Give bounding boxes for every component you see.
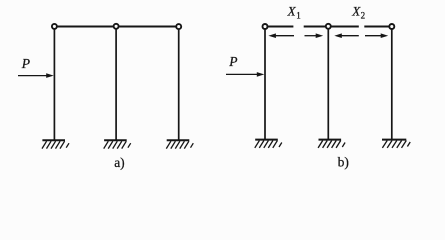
svg-text:X: X xyxy=(287,4,297,19)
svg-text:b): b) xyxy=(338,154,349,169)
svg-text:P: P xyxy=(228,54,237,69)
support b3 xyxy=(382,140,410,148)
beam b stub 1 (left of cut 1) xyxy=(265,26,293,28)
force X1 right arrow xyxy=(305,33,324,38)
hinge a3 xyxy=(176,24,181,29)
beam a (top girder) xyxy=(54,26,178,28)
svg-text:2: 2 xyxy=(361,11,366,21)
beam b stub 3 (left of cut 2) xyxy=(328,26,359,28)
support b1 xyxy=(255,140,282,148)
hinge a2 xyxy=(114,24,119,29)
hinge b3 xyxy=(389,24,394,29)
load P arrow b xyxy=(226,72,264,77)
column b1 xyxy=(264,27,266,141)
force X2 right arrow xyxy=(365,33,388,38)
svg-text:1: 1 xyxy=(296,11,301,21)
svg-text:P: P xyxy=(21,56,30,71)
force X2 left arrow xyxy=(334,33,359,38)
hinge b2 xyxy=(326,24,331,29)
support a3 xyxy=(166,140,193,148)
column b2 xyxy=(327,27,329,141)
support a2 xyxy=(104,140,131,148)
hinge b1 xyxy=(263,24,268,29)
support a1 xyxy=(42,140,69,148)
column a3 xyxy=(178,27,180,141)
support b2 xyxy=(318,140,345,148)
column b3 xyxy=(391,27,393,141)
column a1 xyxy=(53,27,55,141)
hinge a1 xyxy=(52,24,57,29)
force X1 left arrow xyxy=(268,33,294,38)
beam b stub 2 (right of cut 1) xyxy=(304,26,329,28)
column a2 xyxy=(115,27,117,141)
load P arrow a xyxy=(18,73,54,78)
svg-text:a): a) xyxy=(114,155,125,170)
beam b stub 4 (right of cut 2) xyxy=(364,26,392,28)
